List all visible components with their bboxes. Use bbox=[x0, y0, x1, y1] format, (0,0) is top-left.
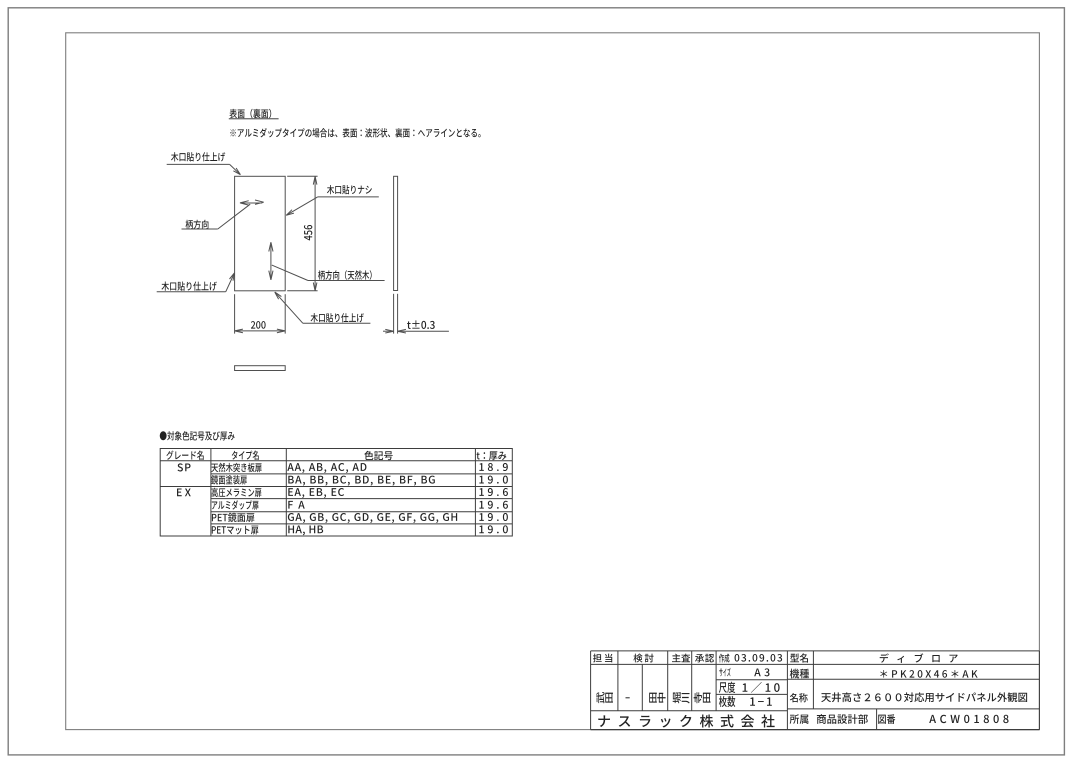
underline of heading bbox=[229, 118, 279, 120]
dim t left leader with arrow bbox=[383, 330, 393, 332]
table column line 1 bbox=[210, 449, 212, 537]
thickness row1 bbox=[479, 463, 507, 471]
dim 456 extension line top bbox=[287, 175, 317, 177]
company name bbox=[598, 714, 774, 727]
dim text 200 bbox=[251, 321, 266, 329]
panel bottom view thin rectangle bbox=[235, 366, 286, 371]
type row1 bbox=[211, 463, 261, 472]
header type name bbox=[232, 451, 259, 460]
tb header kentou bbox=[633, 654, 653, 663]
dim 456 extension line bottom bbox=[287, 290, 317, 292]
dim t extension line right bbox=[397, 294, 399, 334]
table row line bbox=[211, 523, 512, 525]
table header bottom line bbox=[160, 460, 512, 462]
panel edge view thin rectangle bbox=[394, 176, 398, 290]
dim 200 dimension line bbox=[235, 330, 286, 332]
panel front view rectangle bbox=[235, 176, 286, 290]
stamp horikawa bbox=[673, 692, 681, 703]
label kokuchi finish top-left bbox=[171, 152, 225, 161]
type row2 bbox=[211, 475, 247, 484]
title block outer left/top lines bbox=[590, 651, 592, 730]
stamp takeda bbox=[596, 692, 604, 703]
codes row4 bbox=[288, 501, 304, 509]
dim text 456 bbox=[304, 225, 312, 240]
tb value sheets bbox=[750, 697, 772, 705]
title block row line under header bbox=[591, 663, 1040, 665]
dim 456 dimension line bbox=[314, 176, 316, 290]
grade EX bbox=[177, 488, 191, 496]
tb value A3 bbox=[754, 668, 769, 676]
header thickness bbox=[477, 451, 507, 460]
dim text t+-0.3 bbox=[407, 320, 435, 329]
leader line grain direction bbox=[182, 228, 218, 230]
header grade name bbox=[166, 450, 203, 459]
leader line kokuchi nashi bbox=[318, 196, 379, 198]
stamp terada bbox=[694, 692, 702, 703]
dim t right leader with arrow bbox=[398, 330, 449, 332]
dim t extension line left bbox=[393, 294, 395, 334]
title block verticals bbox=[617, 651, 619, 711]
table row line bbox=[211, 511, 512, 513]
tb label kishu bbox=[790, 669, 809, 679]
header color code bbox=[364, 451, 392, 460]
codes row1 bbox=[287, 463, 366, 473]
thickness row4 bbox=[479, 501, 508, 509]
title block names row bottom bbox=[591, 710, 788, 712]
leader line grain natural wood bbox=[308, 280, 385, 282]
leader line bottom-left label bbox=[157, 291, 226, 293]
stamp dash bbox=[626, 697, 630, 699]
tb label sheets bbox=[719, 696, 735, 707]
tb value drawing title bbox=[821, 692, 1027, 702]
label grain direction bbox=[186, 220, 209, 229]
tb label shozoku bbox=[790, 714, 809, 724]
stamp tanaka bbox=[649, 693, 657, 703]
codes row2 bbox=[288, 476, 434, 486]
label kokuchi finish bottom-right bbox=[311, 313, 364, 322]
grain direction double arrow vertical bbox=[270, 245, 272, 278]
title block middle rows bbox=[716, 679, 787, 681]
codes row6 bbox=[288, 525, 323, 535]
label grain direction natural wood bbox=[318, 270, 372, 280]
type row3 bbox=[211, 488, 261, 497]
table row line bbox=[211, 498, 512, 500]
table SP/EX divider line bbox=[160, 486, 512, 488]
title block right rows bbox=[787, 678, 1039, 680]
thickness row2 bbox=[479, 476, 507, 484]
table title bbox=[160, 431, 235, 440]
type row6 bbox=[212, 526, 259, 535]
table outer box bbox=[160, 449, 512, 537]
tb date bbox=[735, 654, 783, 662]
label kokuchi finish bottom-left bbox=[161, 281, 216, 290]
codes row3 bbox=[288, 488, 344, 498]
tb value drawing number bbox=[929, 715, 1008, 723]
codes row5 bbox=[288, 513, 457, 523]
tb header shounin bbox=[695, 654, 714, 663]
tb value department bbox=[817, 714, 868, 724]
leader line bottom-right label bbox=[303, 322, 371, 324]
tb label zuban bbox=[878, 714, 895, 724]
tb label sakusei bbox=[719, 654, 729, 663]
tb value model code bbox=[880, 670, 977, 678]
grain direction double arrow horizontal bbox=[242, 202, 263, 204]
tb label katamei bbox=[790, 653, 808, 662]
type row5 bbox=[212, 513, 255, 522]
table row line bbox=[211, 473, 512, 475]
thickness row3 bbox=[479, 488, 508, 496]
tb label scale bbox=[719, 682, 735, 693]
tb value scale bbox=[743, 682, 780, 693]
tb label meishou bbox=[790, 693, 808, 702]
thickness row5 bbox=[479, 513, 507, 521]
tb label size bbox=[719, 668, 730, 677]
tb header shusa bbox=[672, 654, 690, 663]
dim 200 extension line right bbox=[284, 294, 286, 333]
tb value model name bbox=[880, 653, 958, 662]
note heading: surface (back) bbox=[229, 109, 271, 119]
thickness row6 bbox=[479, 525, 507, 533]
dim 200 extension line left bbox=[234, 294, 236, 333]
label kokuchi nashi bbox=[327, 185, 372, 194]
table column line 2 bbox=[285, 449, 287, 537]
leader line top-left label bbox=[167, 163, 230, 165]
type row4 bbox=[212, 500, 259, 510]
note: aluminum type surface remark bbox=[230, 128, 480, 137]
tb header tantou bbox=[593, 654, 612, 663]
table column line 3 bbox=[474, 449, 476, 537]
grade SP bbox=[177, 463, 190, 471]
